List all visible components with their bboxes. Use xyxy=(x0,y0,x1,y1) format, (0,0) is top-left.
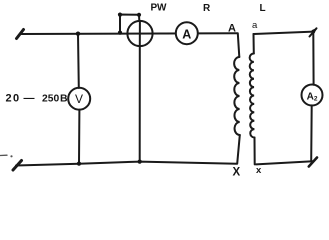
svg-text:A: A xyxy=(228,23,236,35)
svg-text:X: X xyxy=(233,167,241,178)
svg-text:a: a xyxy=(252,20,258,31)
svg-text:L: L xyxy=(260,3,266,14)
svg-text:R: R xyxy=(203,3,211,14)
svg-text:V: V xyxy=(75,92,83,106)
svg-text:PW: PW xyxy=(151,3,167,14)
svg-text:x: x xyxy=(256,165,262,176)
svg-text:A: A xyxy=(182,28,191,42)
